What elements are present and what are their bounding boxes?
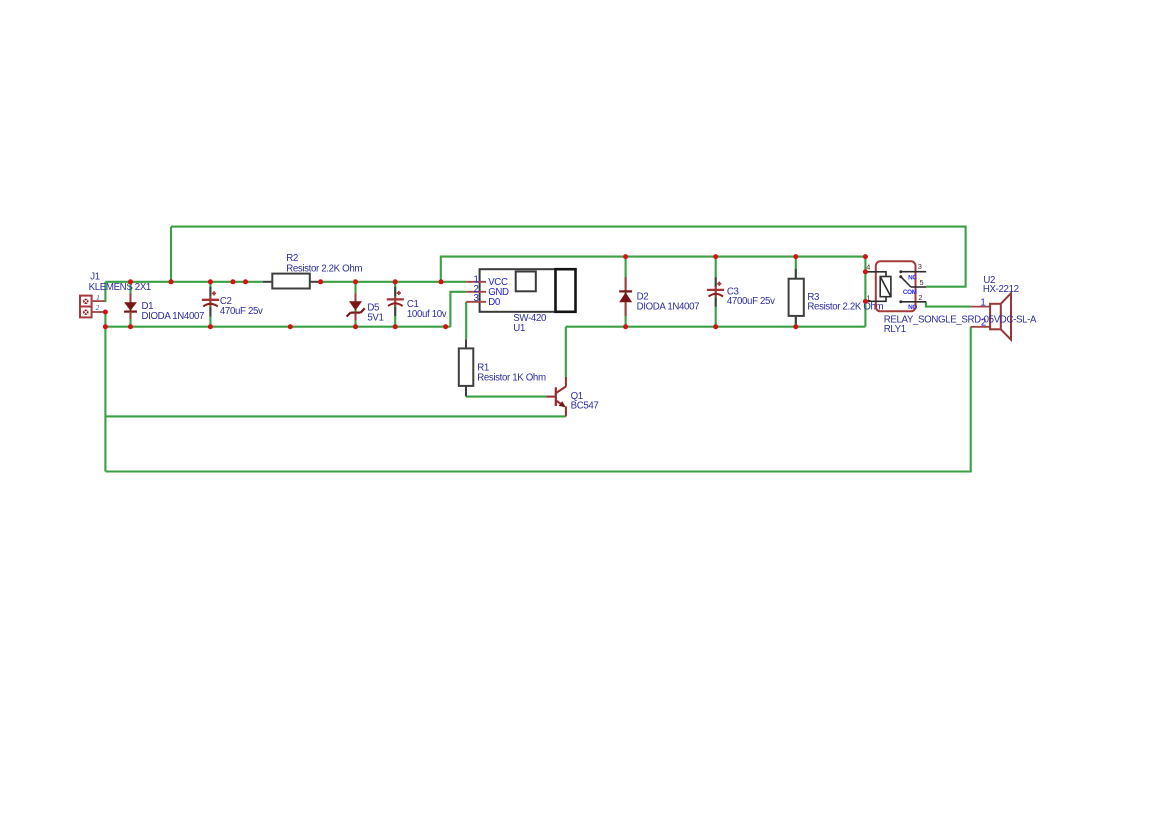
speaker U2 [971,293,1011,340]
wire bottom return loop [105,327,970,472]
wire left vertical J1 pin2 down [104,312,106,472]
wire relay pin2 to speaker pin1 [926,302,971,307]
svg-text:5: 5 [920,278,924,287]
wire D1 branch [129,282,131,327]
svg-text:DIODA 1N4007: DIODA 1N4007 [637,301,700,312]
wire C1 branch [394,282,396,327]
wire J1 pin1 riser [104,282,105,301]
junction dots on relay drop [863,269,868,304]
svg-text:HX-2212: HX-2212 [983,284,1019,295]
wire U1 D0 down to R1 [465,302,467,340]
diode D2 [619,277,632,316]
wire C3 branch [715,257,717,327]
svg-text:1: 1 [980,297,985,308]
svg-text:BC547: BC547 [571,401,599,412]
wire bottom bus right section [566,326,866,328]
resistor R1 [459,339,474,396]
svg-text:3: 3 [473,293,478,304]
module U1 SW-420 [480,269,576,312]
wire D5 branch [354,282,356,327]
svg-text:2: 2 [96,303,100,312]
svg-text:1: 1 [96,293,100,302]
capacitor C3 [707,277,724,306]
svg-text:Resistor 1K Ohm: Resistor 1K Ohm [477,373,546,384]
svg-text:5V1: 5V1 [367,312,383,323]
svg-text:KLEMENS 2X1: KLEMENS 2X1 [89,282,151,293]
wire Q1 emitter return [105,415,565,417]
svg-text:NC: NC [908,274,917,281]
junction dots on second rail [623,254,868,259]
diode D1 [124,294,137,320]
pin 2 stub of J1 [92,311,104,313]
wire R3 branch [795,257,797,327]
capacitor C2 [202,287,219,317]
resistor R3 [789,269,804,324]
svg-text:4700uF 25v: 4700uF 25v [727,296,775,307]
transistor Q1 [546,377,566,416]
svg-text:2: 2 [918,293,922,302]
svg-text:RLY1: RLY1 [884,324,906,335]
connector J1 [80,296,92,318]
pin 1 stub of J1 [92,300,105,302]
svg-text:D0: D0 [488,297,501,308]
wire Q1 collector riser [565,327,567,377]
capacitor C1 [387,287,404,316]
junction dots on main bus [128,279,444,284]
pin 2 stub of U1 [466,291,486,293]
svg-text:3: 3 [918,262,922,271]
pin 3 stub of U1 [466,301,486,303]
svg-text:DIODA 1N4007: DIODA 1N4007 [142,311,205,322]
wire C2 branch [209,282,211,327]
junction dots on bottom bus right [623,324,798,329]
relay RLY1 [866,261,926,311]
wire D2 branch [625,257,627,327]
wire second rail VCC distribution [441,257,866,282]
svg-text:100uf 10v: 100uf 10v [407,309,447,320]
wire main bus left section [105,281,262,283]
svg-text:Resistor 2.2K Ohm: Resistor 2.2K Ohm [807,302,883,313]
svg-text:Resistor 2.2K Ohm: Resistor 2.2K Ohm [286,264,362,275]
svg-text:470uF 25v: 470uF 25v [220,306,263,317]
wire U1 GND to bottom bus [450,292,466,327]
svg-text:NO: NO [908,304,917,311]
zener diode D5 [347,294,365,321]
wire riser from main bus up to top rail [170,227,172,282]
junction dots on bottom bus left [128,324,448,329]
svg-text:COM: COM [903,289,917,296]
svg-text:RELAY_SONGLE_SRD-05VDC-SL-A: RELAY_SONGLE_SRD-05VDC-SL-A [884,315,1037,326]
resistor R2 [263,274,321,289]
pin 1 stub of U1 [466,281,486,283]
wire R1 bottom to Q1 base [466,396,546,398]
wire bottom bus left section [105,326,450,328]
wire main bus right section [321,281,467,283]
svg-text:2: 2 [981,318,986,329]
wire relay feed drop [864,257,866,327]
junction dots at J1 pin2 [103,310,108,330]
svg-text:U1: U1 [513,323,525,334]
wire top rail from node above J1 area to relay pin5 [171,227,966,287]
